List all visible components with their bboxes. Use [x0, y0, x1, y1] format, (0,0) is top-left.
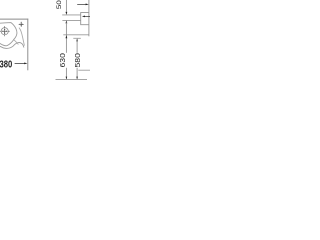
mid diagonal rim arc — [13, 39, 18, 44]
up arrow under C1 — [66, 35, 68, 38]
rim profile: top, front, bottom — [81, 13, 89, 25]
extension line C1 — [63, 34, 89, 36]
extension line B — [62, 19, 80, 21]
fixing arrow inside profile pointing left — [84, 15, 90, 17]
svg-text:630: 630 — [60, 53, 67, 68]
outer rim front edge — [0, 43, 24, 49]
drain position cross symbol — [19, 22, 24, 27]
wall top edge — [0, 18, 28, 20]
svg-text:380: 380 — [0, 59, 13, 70]
bowl outline (kidney) — [0, 23, 17, 46]
580 dim line: up arrow at C2 — [76, 38, 78, 41]
technical spec drawing: corner handrinse basin, plan view + side dims — [0, 0, 90, 90]
svg-text:580: 580 — [75, 53, 82, 68]
50 dim leader from top with down arrow at A — [65, 0, 67, 12]
extension line A (rim top) — [62, 14, 80, 16]
wall right edge + 380 extension line — [27, 19, 29, 71]
extension line C2 — [73, 37, 81, 39]
outlet height line (bottom right) — [78, 69, 90, 71]
faucet hole symbol — [0, 26, 10, 36]
floor line — [56, 78, 88, 80]
svg-text:50: 50 — [56, 0, 63, 9]
wall vertical line — [88, 0, 90, 36]
630/50 shared dim line: up arrow at B, down to text — [66, 20, 68, 23]
top-right horizontal arrow pointing at wall — [77, 3, 86, 5]
NE rim arc near corner — [19, 28, 24, 46]
630 lower segment with down arrow at floor — [65, 68, 67, 80]
580 lower segment with down arrow at floor — [76, 68, 78, 80]
